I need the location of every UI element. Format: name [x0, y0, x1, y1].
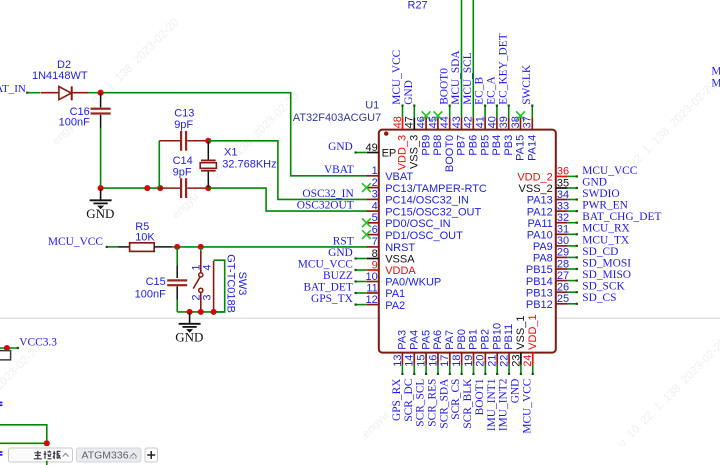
wire pin 37: [531, 105, 533, 118]
pin 23 VSS_1: [520, 353, 522, 365]
svg-text:SCR_RES: SCR_RES: [427, 379, 439, 427]
wire pin 12: [355, 304, 367, 306]
svg-text:VBAT: VBAT: [385, 171, 413, 183]
wire VBAT from D2 to pin 1: [101, 93, 368, 176]
pin 18 PB0: [461, 353, 463, 365]
pin 9 VDDA: [367, 269, 379, 271]
svg-text:VSS_2: VSS_2: [519, 183, 553, 195]
svg-text:38: 38: [510, 116, 522, 128]
wire MCU_VCC to R5: [106, 246, 118, 248]
svg-text:VDD_1: VDD_1: [527, 314, 539, 349]
svg-text:SCR_CS: SCR_CS: [450, 379, 462, 420]
svg-text:30: 30: [557, 235, 569, 247]
wire pin 41: [484, 105, 486, 118]
wire visible below tab: [46, 461, 48, 465]
pin 30 PA9: [556, 245, 568, 247]
wire pin 34: [568, 199, 578, 201]
pin 16 PA6: [437, 353, 439, 365]
ground symbol GND1: [100, 189, 102, 200]
new tab button: [145, 448, 158, 462]
svg-text:PA2: PA2: [385, 300, 405, 312]
svg-text:SCR_BLK: SCR_BLK: [462, 378, 474, 429]
junction GND row left: [98, 185, 104, 191]
svg-text:6: 6: [372, 224, 378, 236]
pin 4 PC15/OSC32_OUT: [367, 210, 379, 212]
svg-text:PA8: PA8: [533, 253, 553, 265]
net stub left edge B2: [0, 451, 2, 453]
svg-text:MCU_VCC: MCU_VCC: [582, 165, 637, 177]
svg-text:SD_SCK: SD_SCK: [582, 281, 625, 293]
svg-text:VDD_2: VDD_2: [517, 172, 552, 184]
pin 1 VBAT: [367, 175, 379, 177]
wire pin 36: [568, 175, 578, 177]
wire pin 17: [449, 365, 451, 375]
pin 32 PA11: [556, 222, 568, 224]
svg-text:PC13/TAMPER-RTC: PC13/TAMPER-RTC: [385, 183, 487, 195]
svg-text:AT32F403ACGU7: AT32F403ACGU7: [293, 112, 381, 124]
pin 38 PA15: [520, 117, 522, 129]
svg-text:11: 11: [366, 282, 377, 294]
wire SW3 bracket: [214, 260, 225, 312]
svg-text:25: 25: [557, 293, 569, 305]
svg-text:PA3: PA3: [397, 330, 409, 350]
svg-text:R27: R27: [408, 0, 428, 12]
junction bottom-left: [44, 440, 50, 446]
svg-text:4: 4: [372, 200, 378, 212]
svg-text:EC_KEY_DET: EC_KEY_DET: [497, 33, 509, 105]
svg-text:MCU_TX: MCU_TX: [582, 234, 630, 246]
junction VCC3.3: [4, 345, 10, 351]
svg-text:MCU_VCC: MCU_VCC: [298, 258, 353, 270]
svg-text:1: 1: [372, 165, 378, 177]
pin 12 PA2: [367, 304, 379, 306]
wire pin 25: [568, 303, 578, 305]
pin 35 VSS_2: [556, 187, 568, 189]
svg-text:31: 31: [557, 224, 569, 236]
pin 3 PC14/OSC32_IN: [367, 198, 379, 200]
svg-text:41: 41: [475, 116, 487, 128]
svg-text:OSC32_IN: OSC32_IN: [302, 188, 353, 200]
junction GND row C14: [157, 185, 163, 191]
svg-text:PA10: PA10: [527, 230, 553, 242]
svg-text:GPS_RX: GPS_RX: [391, 378, 403, 421]
wire pin 26: [568, 291, 578, 293]
svg-text:26: 26: [557, 282, 569, 294]
wire pin 16: [437, 365, 439, 375]
svg-text:MCU_VCC: MCU_VCC: [391, 50, 403, 105]
svg-text:MCU_RX: MCU_RX: [582, 223, 630, 235]
svg-text:C13: C13: [174, 108, 194, 120]
pin 39 PB3: [508, 117, 510, 129]
svg-text:12: 12: [366, 294, 378, 306]
svg-text:PA6: PA6: [432, 330, 444, 350]
svg-text:2: 2: [372, 177, 378, 189]
wire down from loop: [46, 443, 48, 465]
capacitor C13: [159, 140, 180, 142]
svg-text:27: 27: [557, 270, 569, 282]
svg-text:PB7: PB7: [456, 135, 468, 156]
pin 20 PB2: [484, 353, 486, 365]
no-connect pin 38: [516, 111, 525, 120]
svg-text:BAT_IN: BAT_IN: [0, 83, 26, 95]
svg-text:PD0/OSC_IN: PD0/OSC_IN: [385, 218, 450, 230]
junction GND row pin2: [198, 309, 204, 315]
svg-text:ATGM336...: ATGM336...: [82, 449, 138, 461]
pin 19 PB1: [473, 353, 475, 365]
svg-text:MCU_VCC: MCU_VCC: [521, 379, 533, 434]
ground symbol GND2: [189, 313, 191, 324]
resistor R5: [118, 246, 130, 248]
svg-text:MCU_SDA: MCU_SDA: [450, 50, 462, 105]
pin 40 PB4: [496, 117, 498, 129]
svg-text:SWDIO: SWDIO: [582, 188, 619, 200]
svg-text:PD1/OSC_OUT: PD1/OSC_OUT: [385, 230, 463, 242]
svg-text:BOOT0: BOOT0: [444, 135, 456, 172]
tab chevron 2: [131, 453, 137, 456]
pin 41 PB5: [484, 117, 486, 129]
svg-text:GND: GND: [582, 176, 607, 188]
junction GND row pin3: [211, 309, 217, 315]
svg-text:8: 8: [372, 248, 378, 260]
no-connect pin 5: [362, 218, 371, 227]
svg-text:MC: MC: [711, 77, 720, 89]
svg-text:4: 4: [201, 264, 213, 270]
svg-text:42: 42: [463, 116, 475, 128]
svg-text:SCR_SCL: SCR_SCL: [415, 379, 427, 427]
svg-text:EC_A: EC_A: [486, 76, 498, 105]
no-connect pin 6: [362, 230, 371, 239]
svg-text:MC: MC: [711, 66, 720, 78]
svg-text:100nF: 100nF: [135, 289, 166, 301]
sheet border line: [0, 317, 720, 319]
pin 24 VDD_1: [532, 353, 534, 365]
svg-text:PA0/WKUP: PA0/WKUP: [385, 277, 441, 289]
svg-text:PB5: PB5: [479, 135, 491, 156]
diode D2: [41, 92, 59, 94]
svg-text:33: 33: [557, 200, 569, 212]
svg-text:39: 39: [498, 116, 510, 128]
svg-text:35: 35: [557, 177, 569, 189]
svg-text:PB13: PB13: [526, 287, 553, 299]
no-connect pin 45: [434, 111, 443, 120]
svg-text:9pF: 9pF: [173, 166, 192, 178]
capacitor C16: [100, 94, 102, 108]
svg-text:OSC32OUT: OSC32OUT: [297, 200, 354, 212]
svg-text:U1: U1: [365, 100, 379, 112]
svg-text:PA5: PA5: [420, 330, 432, 350]
svg-text:GT-TC018B: GT-TC018B: [225, 254, 237, 313]
svg-text:PC15/OSC32_OUT: PC15/OSC32_OUT: [385, 206, 481, 218]
svg-text:BUZZ: BUZZ: [323, 270, 353, 282]
svg-text:PA9: PA9: [533, 241, 553, 253]
wire pin 14: [413, 365, 415, 375]
svg-text:5: 5: [372, 212, 378, 224]
wire pin 31: [568, 233, 578, 235]
svg-text:40: 40: [486, 116, 498, 128]
wire pin 24: [532, 365, 534, 375]
pin 42 PB6: [472, 117, 474, 129]
svg-text:GPS_TX: GPS_TX: [311, 293, 354, 305]
svg-text:C14: C14: [173, 155, 193, 167]
wire pin 35: [568, 187, 578, 189]
svg-text:PC14/OSC32_IN: PC14/OSC32_IN: [385, 195, 469, 207]
wire pin 18: [461, 365, 463, 375]
net stub left edge B: [0, 451, 2, 453]
wire pin 10: [355, 281, 367, 283]
svg-text:VCC3.3: VCC3.3: [19, 336, 57, 348]
svg-text:PA14: PA14: [527, 135, 539, 161]
svg-text:PB11: PB11: [503, 324, 515, 350]
wire pin 28: [568, 268, 578, 270]
tab chevron 1: [63, 453, 69, 456]
svg-text:44: 44: [439, 116, 451, 128]
svg-text:47: 47: [404, 116, 416, 128]
junction RST row SW3: [198, 244, 204, 250]
svg-text:PB15: PB15: [526, 264, 553, 276]
svg-text:SD_CS: SD_CS: [582, 292, 616, 304]
svg-text:7: 7: [372, 236, 378, 248]
svg-text:SW3: SW3: [236, 272, 248, 296]
svg-text:100nF: 100nF: [59, 116, 90, 128]
svg-text:49: 49: [366, 142, 378, 154]
junction GND row stem: [187, 309, 193, 315]
pin 6 PD1/OSC_OUT: [367, 234, 379, 236]
svg-text:PA13: PA13: [527, 195, 553, 207]
svg-text:PB0: PB0: [456, 329, 468, 350]
svg-text:PB2: PB2: [480, 329, 492, 350]
switch SW3: [200, 247, 202, 251]
no-connect pin 2: [362, 183, 371, 192]
wire MCU_SDA from R27 to pin 43: [461, 0, 463, 117]
tab ATGM336: [77, 448, 142, 462]
wire bottom-left loop: [0, 425, 47, 444]
pin 10 PA0/WKUP: [367, 281, 379, 283]
svg-text:36: 36: [557, 166, 569, 178]
svg-text:32: 32: [557, 212, 569, 224]
no-connect pin 46: [422, 111, 431, 120]
svg-text:PA12: PA12: [527, 206, 553, 218]
svg-text:D2: D2: [57, 59, 71, 71]
junction OSC32OUT node: [205, 185, 211, 191]
svg-text:BAT_CHG_DET: BAT_CHG_DET: [582, 211, 661, 223]
svg-text:1N4148WT: 1N4148WT: [32, 70, 88, 82]
wire pin 49: [355, 152, 367, 154]
pin 25 PB12: [556, 303, 568, 305]
net stub left edge A: [0, 402, 2, 404]
wire pin 44: [449, 105, 451, 118]
pin 49 EP: [367, 152, 379, 154]
svg-text:VSS_3: VSS_3: [409, 135, 421, 169]
wire OSC32_IN to pin 3: [208, 141, 367, 200]
component corner at left edge: [0, 351, 11, 360]
wire pin 19: [473, 365, 475, 375]
svg-text:9pF: 9pF: [174, 119, 193, 131]
svg-text:10: 10: [366, 271, 378, 283]
op-amp U1 body AT32F403ACGU7: [379, 130, 556, 353]
svg-text:PB8: PB8: [432, 135, 444, 156]
svg-text:PA11: PA11: [528, 218, 553, 230]
svg-text:SD_MISO: SD_MISO: [582, 269, 631, 281]
svg-text:VDD_3: VDD_3: [397, 135, 409, 170]
wire pin 32: [568, 222, 578, 224]
svg-text:PA15: PA15: [515, 135, 527, 161]
svg-text:PWR_EN: PWR_EN: [582, 200, 628, 212]
pin 1 indicator dot: [384, 131, 388, 135]
svg-text:PA7: PA7: [444, 330, 456, 350]
svg-text:PB3: PB3: [503, 135, 515, 156]
svg-text:BOOT0: BOOT0: [438, 68, 450, 105]
wire pin 21: [496, 365, 498, 375]
pin 14 PA4: [413, 353, 415, 365]
wire MCU_SCL from R27 to pin 42: [472, 0, 474, 117]
pin 36 VDD_2: [556, 175, 568, 177]
svg-text:VBAT: VBAT: [324, 164, 354, 176]
wire GND row: [101, 187, 161, 189]
svg-text:RST: RST: [333, 235, 354, 247]
pin 43 PB7: [461, 117, 463, 129]
junction at D2/C16: [98, 90, 104, 96]
pin 31 PA10: [556, 233, 568, 235]
svg-text:IMU_INT1: IMU_INT1: [486, 378, 498, 431]
crystal X1: [207, 142, 209, 160]
svg-text:46: 46: [416, 116, 428, 128]
pin 34 PA13: [556, 199, 568, 201]
svg-text:X1: X1: [224, 147, 237, 159]
pin 11 PA1: [367, 292, 379, 294]
svg-text:GND: GND: [86, 206, 114, 221]
svg-text:VSS_1: VSS_1: [515, 316, 527, 350]
junction GND row mid: [144, 185, 150, 191]
tab main sheet: [9, 448, 73, 462]
svg-text:VDDA: VDDA: [385, 265, 416, 277]
svg-text:C15: C15: [146, 276, 166, 288]
svg-text:3: 3: [372, 189, 378, 201]
svg-text:28: 28: [557, 258, 569, 270]
pin 28 PB15: [556, 268, 568, 270]
svg-text:SCR_SDA: SCR_SDA: [438, 378, 450, 429]
wire pin 15: [425, 365, 427, 375]
svg-text:PB12: PB12: [526, 299, 553, 311]
pin 5 PD0/OSC_IN: [367, 222, 379, 224]
junction OSC32_IN node: [205, 138, 211, 144]
svg-text:SD_MOSI: SD_MOSI: [582, 257, 631, 269]
switch SW3 pins 4-3 bar: [213, 261, 215, 311]
svg-text:PB14: PB14: [526, 276, 553, 288]
wire BAT_IN to D2: [27, 92, 41, 94]
svg-text:PB1: PB1: [468, 329, 480, 350]
svg-text:37: 37: [522, 116, 534, 128]
wire pin 40: [496, 105, 498, 118]
pin 45 PB8: [437, 117, 439, 129]
wire VCC3.3: [0, 347, 19, 349]
wire pin 30: [568, 245, 578, 247]
wire pin 8: [355, 258, 367, 260]
svg-text:BAT_DET: BAT_DET: [303, 281, 352, 293]
svg-text:GND: GND: [328, 247, 353, 259]
svg-text:GND: GND: [175, 329, 203, 344]
svg-text:PB9: PB9: [420, 135, 432, 156]
pin 29 PA8: [556, 256, 568, 258]
svg-text:32.768KHz: 32.768KHz: [222, 159, 276, 171]
pin 44 BOOT0: [449, 117, 451, 129]
pin 27 PB14: [556, 280, 568, 282]
pin 22 PB11: [508, 353, 510, 365]
wire C16 to GND row: [100, 128, 102, 188]
tab bar: [0, 446, 720, 465]
wire SW3 GND row: [177, 311, 225, 313]
svg-text:EP: EP: [382, 148, 397, 160]
svg-text:PB6: PB6: [468, 135, 480, 156]
svg-text:PA4: PA4: [408, 330, 420, 350]
wire pin 39: [508, 105, 510, 118]
svg-text:GND: GND: [403, 80, 415, 105]
wire pin 29: [568, 256, 578, 258]
pin 46 PB9: [425, 117, 427, 129]
svg-text:IMU_INT2: IMU_INT2: [498, 378, 510, 431]
svg-text:45: 45: [427, 116, 439, 128]
wire pin 27: [568, 280, 578, 282]
pin 21 PB10: [496, 353, 498, 365]
svg-text:NRST: NRST: [385, 242, 415, 254]
wire OSC32OUT to pin 4: [208, 188, 367, 211]
wire C13 left to GND row: [158, 141, 160, 188]
svg-text:GND: GND: [510, 379, 522, 404]
pin 7 NRST: [367, 246, 379, 248]
junction RST row C15: [174, 244, 180, 250]
wire RST row to pin 7: [172, 246, 367, 248]
svg-text:BOOT1: BOOT1: [474, 378, 486, 415]
svg-text:SWCLK: SWCLK: [521, 64, 533, 105]
capacitor C15: [176, 247, 178, 265]
pin 47 VSS_3: [413, 117, 415, 129]
pin 2 PC13/TAMPER-RTC: [367, 187, 379, 189]
pin 15 PA5: [425, 353, 427, 365]
pin 8 VSSA: [367, 258, 379, 260]
svg-text:34: 34: [557, 189, 569, 201]
svg-text:3: 3: [201, 294, 213, 300]
svg-text:48: 48: [392, 116, 404, 128]
svg-text:10K: 10K: [135, 232, 155, 244]
wire pin 22: [508, 365, 510, 375]
wire pin 23: [520, 365, 522, 375]
svg-text:EC_B: EC_B: [474, 77, 486, 105]
svg-text:GND: GND: [328, 141, 353, 153]
pin 48 VDD_3: [402, 117, 404, 129]
svg-text:PB4: PB4: [491, 135, 503, 156]
wire pin 11: [355, 292, 367, 294]
svg-text:9: 9: [372, 259, 378, 271]
svg-text:43: 43: [451, 116, 463, 128]
svg-text:MCU_VCC: MCU_VCC: [48, 236, 103, 248]
wire pin 48: [402, 105, 404, 118]
svg-text:29: 29: [557, 247, 569, 259]
pin 33 PA12: [556, 210, 568, 212]
wire pin 33: [568, 210, 578, 212]
wire pin 13: [401, 365, 403, 375]
svg-text:engyu 10. 22. 1. 138 2023-02: engyu 10. 22. 1. 138 2023-02-20: [598, 336, 720, 465]
pin 37 PA14: [531, 117, 533, 129]
svg-text:SCR_DC: SCR_DC: [403, 379, 415, 422]
wire pin 9: [355, 269, 367, 271]
svg-text:VSSA: VSSA: [385, 254, 415, 266]
wire pin 20: [484, 365, 486, 375]
svg-text:PB10: PB10: [491, 323, 503, 350]
capacitor C14: [160, 187, 180, 189]
wire pin 47: [413, 105, 415, 118]
svg-text:SD_CD: SD_CD: [582, 246, 618, 258]
svg-text:MCU_SCL: MCU_SCL: [462, 52, 474, 105]
pin 26 PB13: [556, 291, 568, 293]
